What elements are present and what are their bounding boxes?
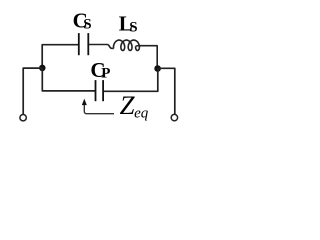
wire LS to right corner down to node: [136, 46, 158, 69]
right terminal circle: [171, 114, 177, 120]
capacitor CS right plate: [87, 33, 89, 55]
Zeq pointer wire: [84, 104, 114, 114]
wire CP branch left: [42, 68, 95, 91]
Zeq pointer arrowhead: [82, 99, 87, 106]
left terminal circle: [20, 115, 26, 121]
capacitor CP right plate: [102, 80, 104, 101]
wire CS to LS: [89, 45, 114, 49]
wire left terminal lead: [23, 68, 42, 114]
wire CP branch right: [104, 69, 158, 92]
svg-text:S: S: [129, 20, 137, 36]
capacitor CS left plate: [78, 33, 80, 55]
svg-text:eq: eq: [134, 105, 149, 121]
wire right terminal lead: [158, 68, 175, 114]
capacitor CP left plate: [95, 80, 97, 101]
wire top-left horizontal to C_S: [42, 45, 78, 68]
node left junction dot: [39, 65, 46, 72]
svg-text:S: S: [83, 17, 91, 33]
svg-text:P: P: [101, 66, 110, 82]
inductor LS coil: [114, 40, 140, 50]
node right junction dot: [154, 65, 161, 72]
